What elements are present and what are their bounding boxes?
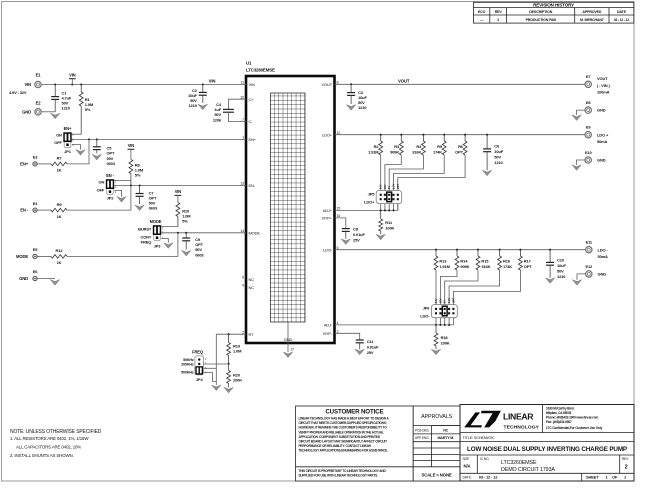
svg-text:VOUT: VOUT [597, 76, 608, 81]
svg-text:CIRCUIT THAT MEETS CUSTOMER-SU: CIRCUIT THAT MEETS CUSTOMER-SUPPLIED SPE… [299, 421, 387, 425]
resistor R15 labels [481, 259, 490, 269]
turret E5 label [16, 254, 28, 259]
svg-text:OFF: OFF [54, 140, 62, 145]
svg-text:VOUT: VOUT [321, 82, 332, 87]
turret E12 [585, 264, 593, 277]
node JP5 col4 on ADJ+ net [392, 209, 394, 211]
ground under C3 [346, 105, 355, 111]
turret E2 label GND [22, 109, 31, 114]
svg-text:APP ENG.: APP ENG. [415, 436, 430, 440]
svg-text:1210: 1210 [557, 274, 566, 279]
capacitor C3 labels [358, 90, 367, 110]
svg-text:909K: 909K [460, 264, 469, 269]
resistor R9 [51, 208, 67, 212]
svg-text:Fax: (408)434-0507: Fax: (408)434-0507 [546, 420, 572, 424]
resistor R13 labels [439, 259, 450, 269]
capacitor C8 labels [353, 227, 365, 243]
op-amp U1 reference label [246, 61, 275, 73]
svg-text:R12: R12 [56, 248, 64, 253]
node R16 junction on LDO- rail [499, 249, 501, 251]
wire C4 top from pin 10 [228, 99, 246, 109]
wire R13 to JP6 col1 [435, 270, 437, 325]
svg-text:JP6: JP6 [423, 305, 431, 310]
resistor R20 labels [233, 372, 242, 382]
svg-text:1210: 1210 [358, 105, 367, 110]
resistor R18 [434, 325, 438, 349]
svg-text:14: 14 [240, 229, 244, 233]
ground under C1/E2 [51, 113, 60, 119]
svg-text:1K: 1K [57, 168, 62, 173]
node E5 riser junction [177, 232, 179, 234]
resistor R10 [176, 203, 180, 227]
svg-text:LDO -: LDO - [598, 247, 609, 252]
svg-text:APPLICATION. COMPONENT SUBSTI: APPLICATION. COMPONENT SUBSTITUTION AND … [299, 435, 381, 439]
svg-text:JP5: JP5 [368, 191, 376, 196]
svg-text:EN-: EN- [249, 183, 256, 188]
svg-text:VIN: VIN [209, 79, 216, 84]
svg-text:EN -: EN - [106, 173, 114, 178]
wire E3 to R7 [37, 163, 51, 165]
capacitor C3 [347, 84, 355, 104]
node JP5 col1 on ADJ+ net [380, 209, 382, 211]
svg-text:50mA: 50mA [597, 139, 608, 144]
jumper JP3 [153, 225, 164, 240]
svg-text:DESCRIPTION: DESCRIPTION [529, 10, 552, 14]
svg-text:M. MERCHANT: M. MERCHANT [580, 18, 605, 22]
wire JP4 pin 4 to ground [204, 373, 217, 382]
wire EN+ net to pin 1 [72, 138, 246, 140]
ground under R18 [431, 349, 440, 355]
svg-text:LINEAR: LINEAR [503, 411, 534, 421]
capacitor C1 [51, 85, 59, 112]
ground under C8 [341, 239, 350, 245]
svg-text:316K: 316K [412, 150, 421, 155]
svg-text:4.9V - 32V: 4.9V - 32V [9, 90, 27, 95]
svg-text:LTC3260EMSE: LTC3260EMSE [501, 460, 537, 466]
svg-text:MODE: MODE [249, 230, 261, 235]
svg-text:LDO-: LDO- [420, 314, 430, 319]
resistor R2 [379, 135, 383, 155]
wire E5 to R12 [37, 255, 51, 257]
svg-text:03 - 12 - 12: 03 - 12 - 12 [614, 18, 629, 22]
svg-text:R18: R18 [441, 335, 449, 340]
svg-text:6: 6 [242, 276, 244, 280]
ground under IC [283, 352, 292, 358]
capacitor C9 labels [195, 237, 204, 257]
svg-text:LDO+: LDO+ [364, 199, 375, 204]
wire JP3 pin 1 to R10 [161, 226, 178, 228]
wire R6 to JP5 col5 [398, 155, 465, 210]
turret E4 label [20, 208, 29, 213]
jumper JP1 [63, 132, 74, 147]
svg-text:ALL CAPACITORS ARE 0402, 10%: ALL CAPACITORS ARE 0402, 10% [16, 445, 81, 450]
svg-text:10uF: 10uF [494, 149, 503, 154]
node JP6 col2 on ADJ- net [439, 324, 441, 326]
resistor R10 labels [182, 209, 191, 224]
node R3 junction on LDO+ rail [400, 134, 402, 136]
svg-text:1630 McCarthy Blvd.: 1630 McCarthy Blvd. [546, 406, 575, 410]
svg-text:OF: OF [612, 474, 618, 479]
svg-text:VOUT: VOUT [398, 79, 410, 84]
svg-text:JP3: JP3 [154, 243, 162, 248]
wire JP2 pin 1 to R8 [114, 180, 130, 182]
svg-text:R11: R11 [385, 220, 393, 225]
ground under C5 [92, 154, 101, 160]
resistor R12 labels [56, 248, 64, 265]
wire VOUT rail [335, 83, 586, 85]
svg-text:0.01uF: 0.01uF [367, 345, 379, 350]
node C10 junction [549, 249, 551, 251]
svg-text:REVISION HISTORY: REVISION HISTORY [533, 2, 574, 7]
wire R16 to JP6 col4 [449, 270, 500, 325]
svg-text:FREQ: FREQ [192, 350, 204, 355]
IC ground pin 17 wire [288, 322, 294, 352]
node R17 junction on LDO- rail [519, 249, 521, 251]
svg-text:EN+: EN+ [64, 126, 72, 131]
turret E5 [33, 247, 39, 258]
svg-text:174K: 174K [503, 264, 512, 269]
svg-text:R15: R15 [481, 259, 489, 264]
wire R17 to JP6 col5 [453, 270, 520, 325]
capacitor C10 labels [557, 258, 566, 280]
svg-text:REV.: REV. [622, 457, 629, 461]
wire EN- net to pin 13 [114, 185, 246, 187]
svg-text:100mA: 100mA [597, 89, 610, 94]
turret E10 [585, 150, 593, 163]
resistor R4 labels [412, 144, 422, 154]
ground under C2 [198, 104, 207, 110]
capacitor C4 [223, 109, 234, 112]
capacitor C6 [483, 135, 491, 171]
net label VIN near pin 11 [209, 79, 216, 84]
svg-text:3.3V: 3.3V [447, 298, 451, 304]
svg-text:FREQ: FREQ [141, 240, 152, 245]
svg-text:1K: 1K [57, 260, 62, 265]
svg-text:R17: R17 [524, 259, 532, 264]
svg-text:TECHNOLOGY APPLICATIONS ENGINE: TECHNOLOGY APPLICATIONS ENGINEERING FOR … [299, 448, 389, 452]
wire ADJ+ net pin 15 [335, 209, 398, 211]
svg-text:R14: R14 [460, 259, 468, 264]
node C6 junction [486, 134, 488, 136]
resistor R14 [455, 250, 459, 270]
svg-text:ON: ON [56, 132, 62, 137]
svg-text:5V: 5V [387, 186, 391, 189]
svg-text:IC NO.: IC NO. [480, 457, 489, 461]
resistor R9 labels [57, 202, 63, 219]
ground at JP3 [164, 243, 173, 249]
resistor R13 [434, 250, 438, 270]
capacitor C8 [342, 229, 350, 239]
resistor R11 [379, 210, 383, 234]
svg-text:Phone: (408)432-1900 www.lin: Phone: (408)432-1900 www.linear.com [546, 416, 599, 420]
svg-text:BURST: BURST [138, 226, 152, 231]
ground at JP1 [76, 150, 85, 156]
node JP6 col3 on ADJ- net [444, 324, 446, 326]
resistor R16 labels [503, 259, 512, 269]
svg-text:03 - 12 - 12: 03 - 12 - 12 [479, 474, 499, 479]
svg-text:THIS CIRCUIT IS PROPRIETARY TO: THIS CIRCUIT IS PROPRIETARY TO LINEAR TE… [299, 469, 387, 473]
svg-text:50V: 50V [557, 269, 564, 274]
ground under R20 [224, 387, 233, 393]
IC U1 right pin names and numbers [284, 81, 341, 343]
capacitor C11 labels [367, 339, 379, 355]
svg-text:NC: NC [249, 285, 255, 290]
resistor R18 labels [441, 335, 450, 345]
turret E11 [586, 240, 593, 253]
resistor R2 labels [368, 144, 379, 154]
capacitor C2 labels [188, 88, 198, 108]
svg-text:TECHNOLOGY: TECHNOLOGY [504, 425, 540, 431]
resistor R3 labels [390, 144, 400, 154]
svg-text:174K: 174K [433, 150, 442, 155]
svg-text:13: 13 [240, 182, 244, 186]
capacitor C9 [182, 233, 190, 250]
svg-text:VIN: VIN [24, 82, 31, 87]
jumper JP2 [106, 179, 117, 194]
schematic title [467, 446, 627, 453]
svg-text:REV: REV [495, 10, 503, 14]
net label VOUT [398, 79, 410, 84]
svg-text:GND: GND [19, 276, 28, 281]
svg-text:2. INSTALL SHUNTS AS SHOWN.: 2. INSTALL SHUNTS AS SHOWN. [10, 453, 74, 458]
wire VIN rail [41, 84, 246, 86]
svg-text:CIRCUIT BOARD LAYOUT MAY SIGNI: CIRCUIT BOARD LAYOUT MAY SIGNIFICANTLY A… [299, 439, 388, 443]
capacitor C5 labels [107, 146, 116, 166]
customer notice box [296, 406, 414, 481]
ground under C6 [482, 170, 491, 176]
resistor R8 labels [135, 162, 144, 177]
turret E11 labels [598, 247, 609, 259]
turret E1 [35, 73, 41, 88]
node R4 junction on LDO+ rail [422, 134, 424, 136]
svg-text:MODE: MODE [150, 219, 162, 224]
node JP6 col1 on ADJ- net [435, 324, 437, 326]
node JP5 col3 on ADJ+ net [388, 209, 390, 211]
ground under C11 [355, 349, 364, 355]
svg-text:DATE:: DATE: [463, 475, 472, 479]
resistor R19 labels [233, 344, 242, 354]
ground at JP2 [117, 197, 126, 203]
svg-text:E1: E1 [36, 73, 42, 78]
resistor R7 labels [57, 156, 63, 173]
svg-text:2: 2 [625, 465, 628, 471]
turret E8 label GND [597, 108, 606, 113]
svg-text:9: 9 [242, 284, 244, 288]
svg-text:50KHz: 50KHz [183, 358, 194, 362]
svg-text:BYP+: BYP+ [322, 216, 333, 221]
turret E1 labels [9, 82, 31, 95]
svg-text:E11: E11 [586, 240, 593, 245]
ground at E8 [572, 115, 581, 121]
resistor R20 [227, 364, 231, 388]
svg-text:5%: 5% [135, 173, 141, 178]
jumper JP2 labels [97, 173, 115, 201]
svg-text:APPROVALS: APPROVALS [421, 414, 452, 420]
svg-text:12V: 12V [383, 184, 387, 189]
turret E6 label GND [19, 276, 28, 281]
svg-text:1.91M: 1.91M [439, 264, 450, 269]
node C5 junction [96, 138, 98, 140]
ground under C10 [545, 278, 554, 284]
wire E6 to ground [37, 278, 55, 280]
jumper JP6 [432, 305, 458, 318]
svg-text:0603: 0603 [149, 206, 158, 211]
svg-text:E12: E12 [585, 264, 593, 269]
ground under C9 [182, 250, 191, 256]
wire R5 to JP5 col4 [394, 155, 445, 210]
node R2 junction on LDO+ rail [380, 134, 382, 136]
node R13 junction on LDO- rail [435, 249, 437, 251]
resistor R7 [51, 162, 67, 166]
svg-text:U1: U1 [246, 61, 252, 66]
turret E9 [585, 125, 591, 138]
wire E2 to C1 [41, 111, 55, 113]
svg-text:50mA: 50mA [598, 254, 609, 259]
wire MODE net to pin 14 [161, 232, 246, 234]
wire RT net to pin 2 [216, 333, 246, 335]
Linear Technology address block [546, 406, 603, 430]
svg-text:N/A: N/A [464, 464, 471, 469]
svg-text:DATE: DATE [617, 10, 627, 14]
svg-text:TITLE: SCHEMATIC: TITLE: SCHEMATIC [463, 436, 496, 440]
capacitor C4 labels [213, 102, 222, 122]
resistor R5 labels [433, 144, 443, 154]
resistor R17 labels [524, 259, 532, 269]
size and part number row [463, 457, 630, 473]
wire LDO- rail [335, 249, 586, 251]
wire E8 to ground [577, 110, 586, 115]
capacitor C1 labels [62, 90, 72, 110]
wire C4 bottom to pin 7 [228, 112, 246, 121]
svg-text:R16: R16 [503, 259, 511, 264]
turret E7 [585, 74, 591, 87]
svg-text:1206: 1206 [213, 117, 222, 122]
capacitor C10 [546, 250, 554, 278]
resistor R14 labels [460, 259, 469, 269]
title block grid [460, 405, 634, 482]
wire R3 to JP5 col2 [385, 155, 401, 210]
svg-text:SUPPLIED FOR USE WITH LINEAR T: SUPPLIED FOR USE WITH LINEAR TECHNOLOGY … [299, 473, 379, 477]
svg-text:JP4: JP4 [196, 377, 204, 382]
Linear Technology logo text [503, 411, 540, 430]
wire LDO+ rail [335, 134, 586, 136]
svg-text:PCB DES.: PCB DES. [415, 428, 429, 432]
svg-text:NOTE: UNLESS OTHERWISE SPECIFI: NOTE: UNLESS OTHERWISE SPECIFIED [10, 429, 102, 435]
svg-text:316K: 316K [481, 264, 490, 269]
svg-text:1. ALL RESISTORS ARE 0402, 1%,: 1. ALL RESISTORS ARE 0402, 1%, 1/16W [10, 436, 89, 441]
resistor R3 [399, 135, 403, 155]
resistor R16 [498, 250, 502, 270]
svg-text:50V: 50V [494, 154, 501, 159]
node C9 junction [185, 232, 187, 234]
svg-text:LDO-: LDO- [323, 247, 333, 252]
svg-text:NC: NC [249, 277, 255, 282]
svg-text:CUSTOMER NOTICE: CUSTOMER NOTICE [325, 409, 383, 416]
svg-text:E10: E10 [585, 150, 593, 155]
wire R2 to JP5 col1 [380, 155, 382, 210]
power flag VIN at R10 [175, 189, 182, 202]
svg-text:24V: 24V [379, 184, 383, 189]
resistor R15 [476, 250, 480, 270]
svg-text:LDO+: LDO+ [322, 132, 333, 137]
resistor R4 [422, 135, 426, 155]
node R1-VIN junction [80, 83, 82, 85]
ground at RT riser [212, 385, 221, 391]
IC U1 LTC3260EMSE body [246, 76, 335, 343]
jumper JP5 [376, 191, 402, 204]
svg-text:SHEET: SHEET [586, 474, 599, 479]
turret E9 labels [597, 132, 609, 144]
capacitor C7 labels [149, 190, 158, 210]
svg-text:VIN: VIN [128, 143, 135, 148]
svg-text:0603: 0603 [195, 252, 204, 257]
turret E3 label [20, 162, 29, 167]
svg-text:NC: NC [443, 428, 448, 432]
svg-text:200K: 200K [233, 378, 242, 383]
svg-text:JP2: JP2 [107, 196, 115, 201]
svg-text:PRODUCTION FAB: PRODUCTION FAB [526, 18, 557, 22]
node C7 junction [139, 184, 141, 186]
svg-text:E2: E2 [36, 101, 42, 106]
wire RT riser to ground [215, 334, 217, 385]
wire R1 to JP1 pin 1 [72, 133, 81, 135]
power flag VIN at input [69, 73, 76, 85]
svg-text:OPT: OPT [524, 264, 532, 269]
resistor R1 labels [85, 97, 94, 112]
svg-text:PERFORMANCE OR RELIABILITY. C: PERFORMANCE OR RELIABILITY. CONTACT LINE… [299, 444, 372, 448]
jumper JP5 pin voltage labels [379, 183, 400, 189]
svg-text:1.91M: 1.91M [368, 150, 379, 155]
turret E7 labels [597, 76, 610, 94]
node R19-R20 junction [228, 363, 230, 365]
svg-text:LOW NOISE DUAL SUPPLY INVERTIN: LOW NOISE DUAL SUPPLY INVERTING CHARGE P… [467, 446, 627, 453]
svg-text:—: — [480, 18, 484, 22]
resistor R5 [442, 135, 446, 155]
svg-text:C+: C+ [249, 97, 255, 102]
svg-text:JP1: JP1 [64, 149, 72, 154]
jumper JP3 labels [138, 219, 162, 248]
resistor R19 [227, 334, 231, 364]
wire JP2 pin 3 to ground [114, 190, 121, 196]
node R19 junction on RT [228, 333, 230, 335]
svg-text:MODE: MODE [16, 254, 28, 259]
svg-text:2: 2 [242, 330, 244, 334]
svg-text:1.0M: 1.0M [233, 349, 242, 354]
IC U1 left pin names and numbers [240, 81, 260, 337]
resistor R17 [519, 250, 523, 270]
wire R15 to JP6 col3 [445, 270, 478, 325]
svg-text:1210: 1210 [62, 106, 71, 111]
svg-text:C10: C10 [557, 258, 565, 263]
svg-text:3.3V: 3.3V [392, 183, 396, 189]
ground at E10 [572, 165, 581, 171]
wire JP1 pin 3 to ground [72, 145, 81, 150]
svg-text:R13: R13 [439, 259, 447, 264]
svg-text:( - VIN ): ( - VIN ) [597, 83, 610, 88]
turret E8 [585, 100, 591, 113]
svg-text:DEMO CIRCUIT 1793A: DEMO CIRCUIT 1793A [501, 467, 555, 473]
svg-text:5%: 5% [182, 219, 188, 224]
svg-text:0.01uF: 0.01uF [353, 232, 365, 237]
svg-text:0603: 0603 [107, 161, 116, 166]
capacitor C6 labels [494, 143, 503, 165]
jumper JP6 pin voltage labels [434, 297, 455, 303]
svg-text:5: 5 [337, 246, 339, 250]
resistor R8 [129, 160, 133, 186]
svg-text:10uF: 10uF [557, 263, 566, 268]
resistor R1 [79, 85, 83, 135]
svg-text:ECO: ECO [478, 10, 486, 14]
